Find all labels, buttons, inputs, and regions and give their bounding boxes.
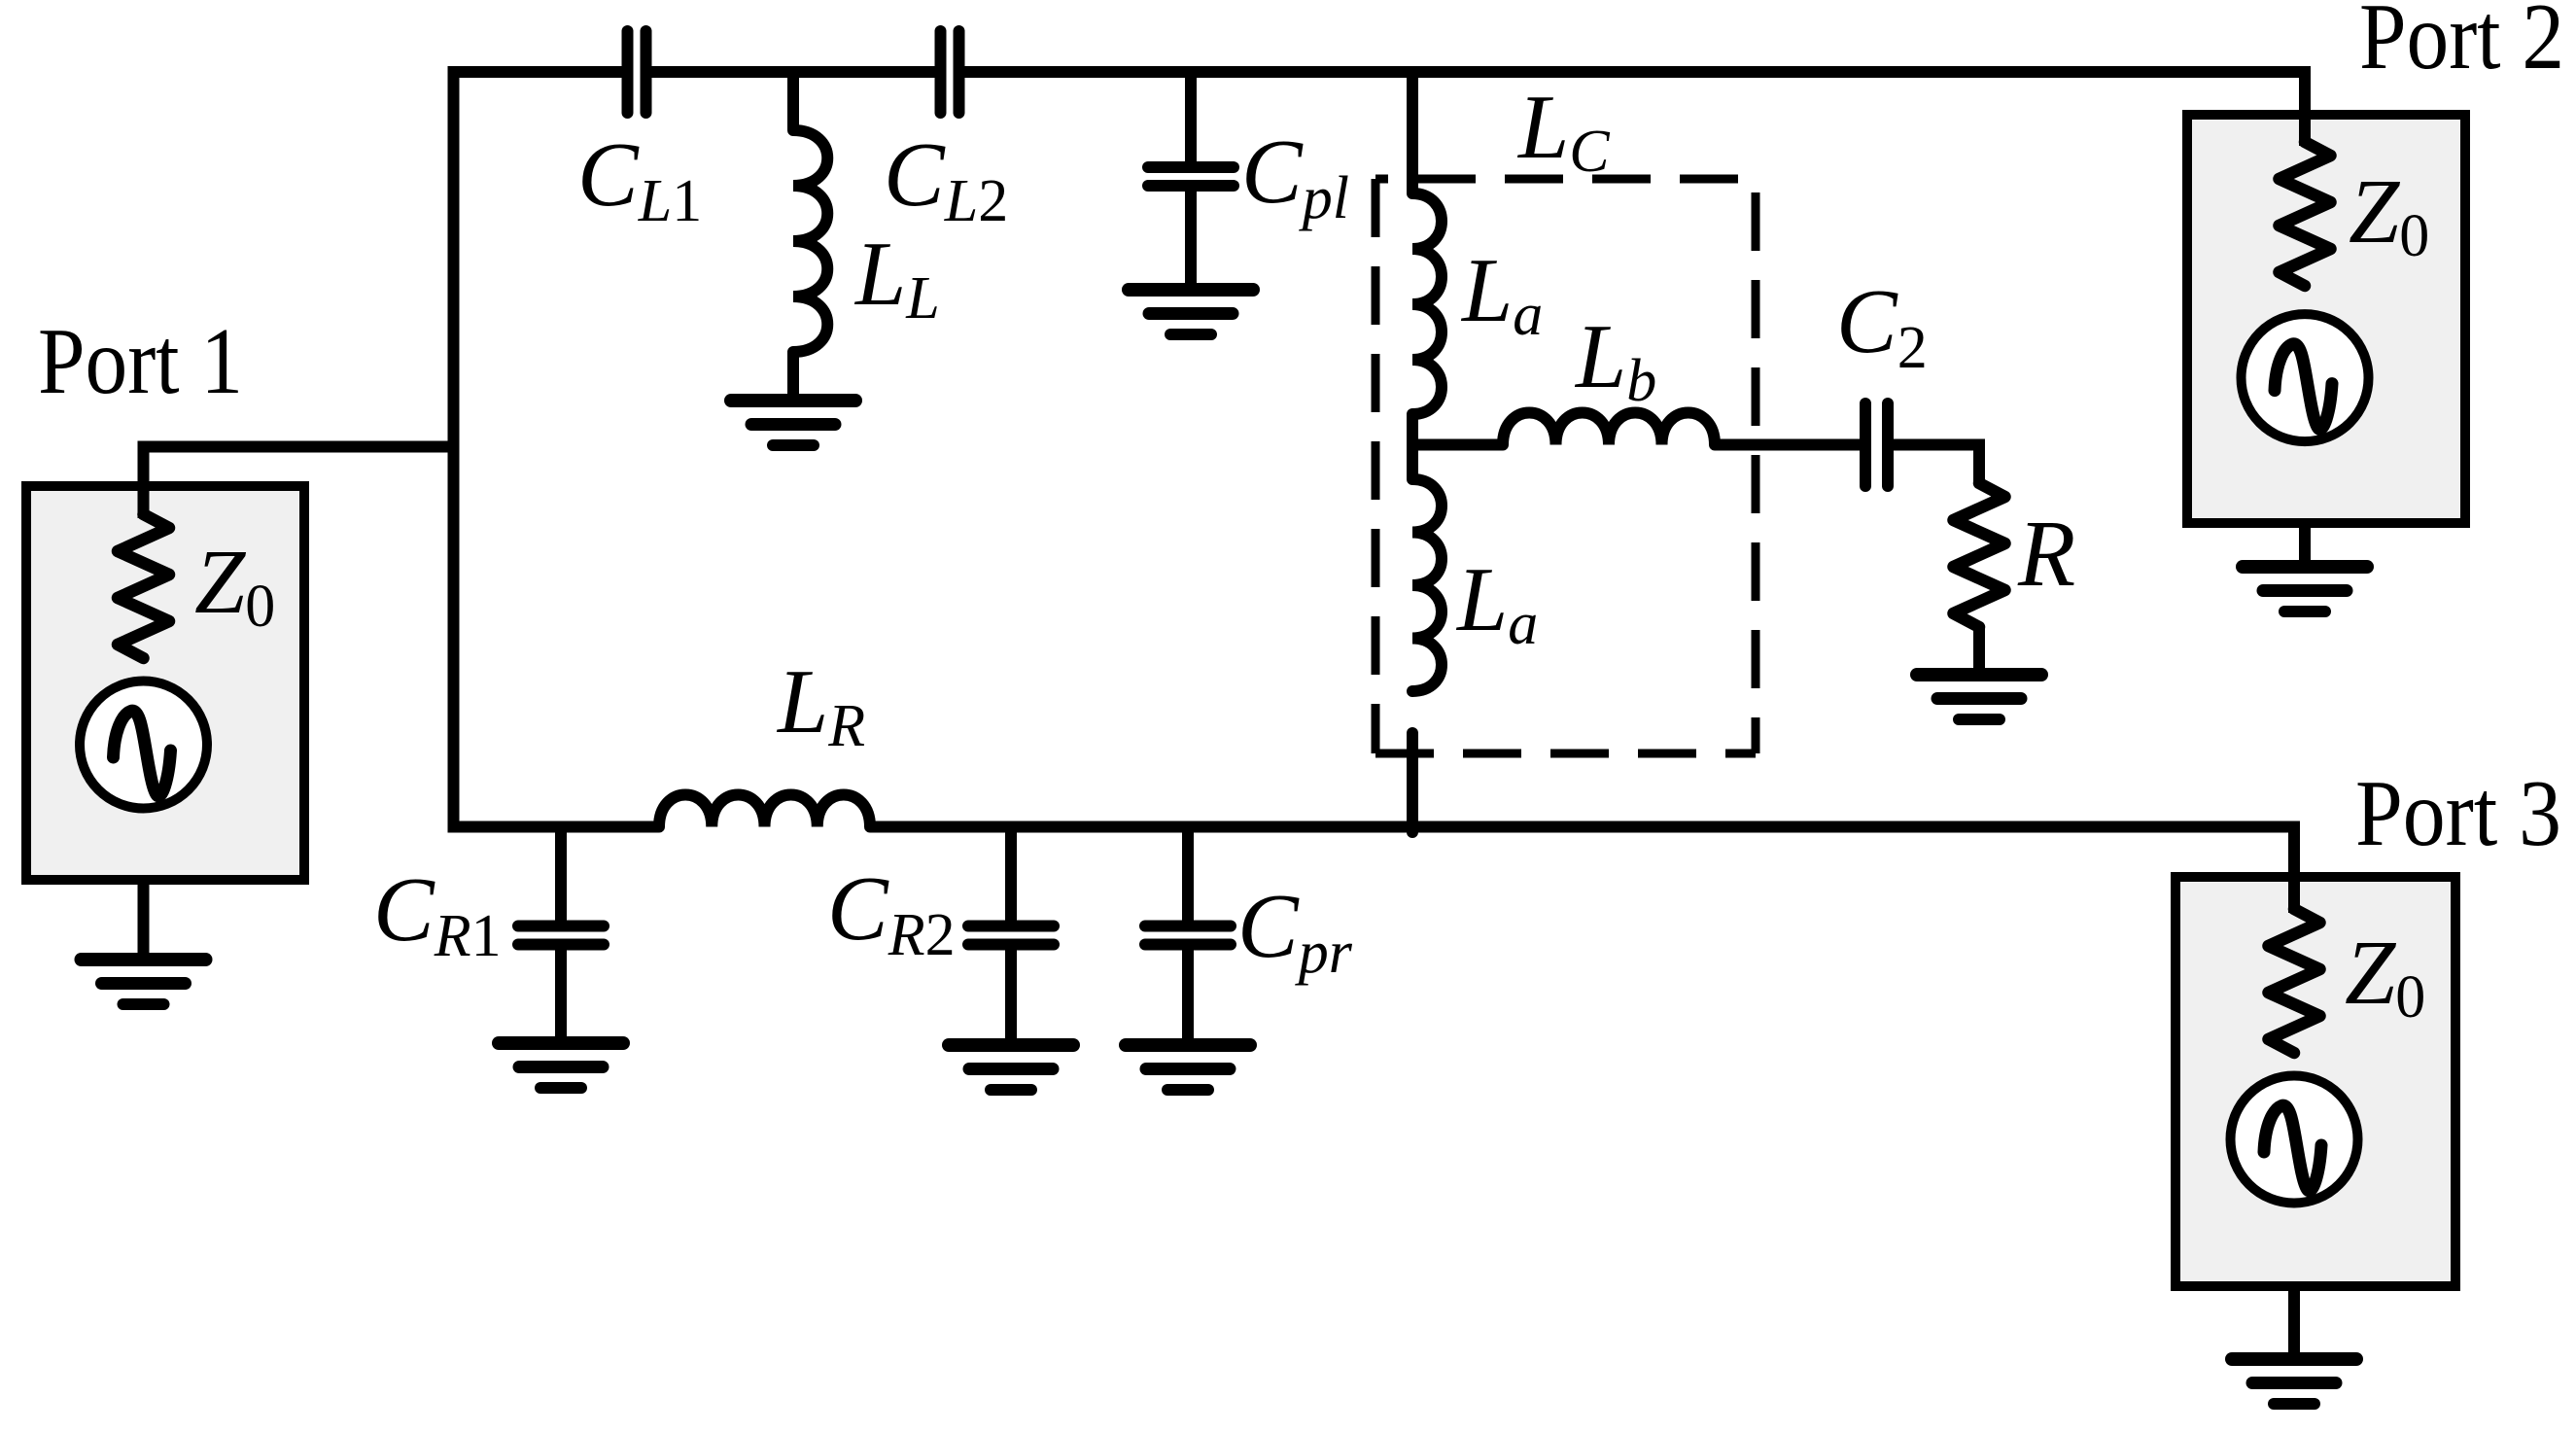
dashed box L_C: left edge (1372, 179, 1380, 753)
port 3 box (2176, 877, 2455, 1286)
wire: Port3 entry into box (2288, 826, 2300, 913)
svg-text:R: R (2017, 502, 2075, 606)
wire: Port3 resistor to source lead (2288, 1052, 2300, 1075)
svg-text:Port 2: Port 2 (2359, 0, 2564, 88)
ground of Port 3 (2232, 1359, 2356, 1404)
wire: Port2 resistor to source lead (2299, 285, 2311, 313)
inductor L_a upper (1412, 193, 1442, 414)
wire: Port2 entry into box (2299, 72, 2311, 146)
wire: Port1 resistor to source lead (138, 656, 150, 681)
wire: stub top of C_R1 (555, 821, 567, 922)
wire: top-left corner + left vertical + bottom-left run (454, 72, 660, 827)
dashed box L_C: right edge (1752, 179, 1760, 753)
capacitor C_R1 (518, 926, 604, 945)
dashed box L_C: top edge (1375, 175, 1756, 184)
inductor L_R (659, 795, 870, 827)
capacitor C_L2 (941, 31, 959, 113)
resistor R (1954, 483, 2005, 627)
ac source of Port 1 (80, 681, 207, 809)
wire: Port1 source to ground (138, 809, 150, 960)
wire: stub top of L_L (787, 66, 799, 130)
wire: stub top of C_R2 (1005, 821, 1017, 922)
svg-text:Port 3: Port 3 (2355, 761, 2561, 865)
wire: top between C_L1 and C_L2 (651, 66, 935, 78)
wire: Port3 source to ground (2288, 1205, 2300, 1359)
wire: stub C_pl to ground (1185, 191, 1197, 290)
wire: stub C_pr to ground (1182, 949, 1194, 1043)
ground of C_R1 (499, 1043, 623, 1088)
resistor Z0 of Port 1 (118, 514, 169, 658)
wire: stub C_R2 to ground (1005, 949, 1017, 1043)
inductor L_b (1503, 413, 1715, 445)
port 2 box (2187, 115, 2465, 523)
wire: L_b to C_2 (1715, 439, 1860, 451)
ground of C_pr (1126, 1045, 1250, 1090)
wire: L_a lower to bottom bus (1407, 733, 1418, 832)
wire: Port 1 to main node (144, 447, 454, 517)
wire: stub R to ground (1973, 627, 1985, 675)
wire: top right run to Port 2 (964, 72, 2305, 144)
capacitor C_2 (1865, 403, 1888, 486)
capacitor C_L1 (628, 31, 646, 113)
wire: C_2 to R corner (1894, 445, 1979, 486)
wire: mid node to L_b (1412, 439, 1503, 451)
resistor Z0 of Port 2 (2280, 142, 2331, 286)
port 1 box (26, 486, 304, 880)
wire: stub top of C_pl (1185, 66, 1197, 162)
ground of Port 2 (2243, 567, 2367, 611)
ground of L_L (731, 401, 855, 445)
wire: stub C_R1 to ground (555, 949, 567, 1043)
ground of C_pl (1129, 290, 1253, 334)
inductor L_a lower (1412, 479, 1442, 691)
ac source of Port 2 (2242, 314, 2369, 441)
ground of R (1917, 675, 2041, 719)
ground of C_R2 (949, 1045, 1073, 1090)
resistor Z0 of Port 3 (2269, 909, 2320, 1053)
wire: stub between L_a coils (1407, 413, 1418, 479)
wire: stub top of L_a upper (1407, 66, 1418, 193)
capacitor C_R2 (968, 926, 1054, 945)
wire: stub top of C_pr (1182, 821, 1194, 922)
wire: Port2 source to ground (2299, 442, 2311, 567)
capacitor C_pl (1148, 167, 1234, 186)
svg-text:Port 1: Port 1 (38, 309, 243, 413)
ground of Port 1 (82, 960, 206, 1004)
wire: stub L_L to ground (787, 351, 799, 401)
inductor L_L (793, 130, 827, 352)
dashed box L_C: bottom edge (1375, 750, 1756, 758)
ac source of Port 3 (2231, 1076, 2358, 1204)
wire: Port1 entry into box (138, 446, 150, 518)
wire: bottom right run to Port 3 (870, 827, 2294, 912)
capacitor C_pr (1145, 926, 1231, 945)
